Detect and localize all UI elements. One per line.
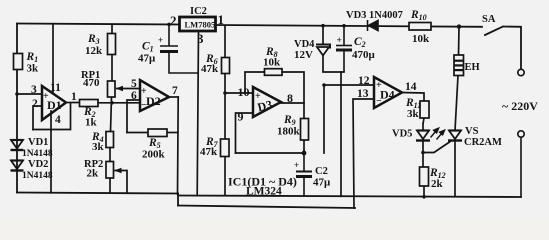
wire D1 pin2 <box>33 106 42 130</box>
switch SA <box>485 27 521 70</box>
node top right junction <box>457 24 461 28</box>
resistor R10 <box>409 23 431 31</box>
wire left rail <box>16 24 18 193</box>
wire D3 pin9 <box>236 113 254 153</box>
svg-text:C2: C2 <box>315 166 328 177</box>
zener VD4 <box>316 26 330 72</box>
wire D4 pin12 <box>324 84 374 86</box>
diode VD2 <box>11 161 24 171</box>
wire R5 loop left <box>127 132 148 134</box>
wire R8 left riser <box>245 72 265 93</box>
svg-text:470: 470 <box>83 77 100 89</box>
resistor R8 <box>265 69 283 76</box>
diode VD1 <box>11 140 24 150</box>
op-amp D2 <box>140 80 169 111</box>
resistor R3 <box>108 24 116 81</box>
LED arrows <box>431 128 445 139</box>
wire top rail left <box>17 24 179 25</box>
svg-text:C2: C2 <box>354 36 366 49</box>
svg-text:47μ: 47μ <box>313 177 331 189</box>
wire D1 output <box>66 102 80 104</box>
wire main ground rail <box>178 196 521 198</box>
wire D2 output down <box>177 97 180 194</box>
svg-text:2: 2 <box>170 13 177 28</box>
potentiometer RP2 <box>106 162 114 194</box>
resistor R11 <box>420 101 429 124</box>
diode VD3 <box>368 20 379 31</box>
svg-text:12: 12 <box>358 75 370 87</box>
node junctions <box>15 23 426 199</box>
svg-text:3k: 3k <box>27 63 40 75</box>
wire top rail mid <box>215 25 482 27</box>
wire D4 output <box>402 93 424 102</box>
regulator IC2 LM7805 <box>180 17 216 31</box>
wire D2 pin6 riser <box>127 100 140 133</box>
wire RP1 wiper to D2 pin5 <box>116 88 140 90</box>
svg-text:47k: 47k <box>200 146 218 158</box>
svg-text:4: 4 <box>55 114 61 126</box>
svg-text:D1: D1 <box>47 98 62 112</box>
label IC1 <box>228 175 297 198</box>
resistor R2 <box>80 100 99 107</box>
svg-text:+: + <box>158 35 163 45</box>
wire zener ground link <box>323 72 374 208</box>
svg-text:VD3 1N4007: VD3 1N4007 <box>346 10 403 21</box>
LED VD5 <box>416 123 430 167</box>
resistor R12 <box>420 167 429 197</box>
terminal lower <box>518 131 524 137</box>
svg-text:10k: 10k <box>263 57 281 69</box>
wire pin12 riser to C2 node <box>323 85 325 153</box>
wire bottom bus <box>178 206 355 209</box>
svg-text:1k: 1k <box>85 117 98 129</box>
svg-text:2k: 2k <box>431 178 444 190</box>
svg-text:1: 1 <box>218 12 225 27</box>
wire IC2 pin3 ground <box>197 31 198 196</box>
svg-text:VD5: VD5 <box>392 129 412 140</box>
wire R5 loop right <box>167 132 178 134</box>
wire bottom rail step <box>177 194 179 206</box>
svg-text:R10: R10 <box>410 9 427 22</box>
svg-text:~ 220V: ~ 220V <box>502 99 538 113</box>
svg-text:180k: 180k <box>277 126 301 138</box>
svg-text:10k: 10k <box>412 33 430 45</box>
svg-text:CR2AM: CR2AM <box>464 137 502 148</box>
capacitor C1 <box>160 24 199 73</box>
svg-text:D4: D4 <box>380 88 395 102</box>
capacitor C2 <box>296 153 312 196</box>
svg-text:12k: 12k <box>85 45 103 57</box>
wire R8 right to output node <box>282 72 304 119</box>
svg-text:LM324: LM324 <box>246 186 282 198</box>
resistor R9 <box>301 119 309 154</box>
resistor R7 <box>221 139 230 196</box>
wire D1 pin4 ground <box>50 111 52 193</box>
resistor R6 <box>222 25 230 139</box>
svg-text:1: 1 <box>71 91 77 103</box>
wire RP2 wiper <box>115 171 128 194</box>
capacitor C3 <box>336 26 352 72</box>
svg-text:10: 10 <box>238 85 250 99</box>
svg-text:14: 14 <box>405 81 417 93</box>
wire D1 feedback loop <box>33 103 71 130</box>
svg-text:VS: VS <box>465 126 479 137</box>
wire lower terminal to rail <box>520 137 522 197</box>
svg-text:+: + <box>294 160 299 170</box>
op-amp D4 <box>374 77 402 108</box>
svg-text:12V: 12V <box>294 49 313 61</box>
heater EH <box>454 27 464 76</box>
op-amp D1 <box>42 86 66 120</box>
resistor R5 <box>148 129 167 137</box>
svg-text:11: 11 <box>50 82 61 94</box>
resistor R1 <box>14 54 23 70</box>
wire R2 to D2 pin6 <box>98 102 140 104</box>
svg-text:3k: 3k <box>407 108 420 120</box>
svg-text:1N4148: 1N4148 <box>22 171 53 181</box>
svg-text:200k: 200k <box>142 149 166 161</box>
wire D4 pin13 <box>353 99 374 208</box>
wire bottom rail left <box>17 193 178 194</box>
resistor R4 <box>106 132 114 162</box>
wire ground riser x341 <box>340 72 342 196</box>
svg-text:VD2: VD2 <box>28 159 48 170</box>
svg-text:7: 7 <box>172 85 178 97</box>
wire D3 pin9 to C2 node <box>236 152 305 154</box>
wire D3 pin10 <box>225 92 253 94</box>
svg-text:9: 9 <box>238 110 244 124</box>
svg-text:1N4148: 1N4148 <box>22 149 53 159</box>
svg-text:47μ: 47μ <box>138 53 156 65</box>
svg-text:13: 13 <box>357 88 369 100</box>
svg-text:2k: 2k <box>87 168 100 180</box>
svg-text:47k: 47k <box>201 63 219 75</box>
wire VS gate <box>423 141 451 153</box>
svg-text:SA: SA <box>482 14 496 25</box>
svg-text:LM7805: LM7805 <box>185 20 216 30</box>
svg-text:IC2: IC2 <box>190 6 207 17</box>
wire D1 pin3 <box>17 93 42 95</box>
svg-text:+: + <box>337 36 342 46</box>
wire D3 output <box>281 102 304 104</box>
terminal upper <box>518 69 524 75</box>
svg-text:5: 5 <box>131 78 137 90</box>
thyristor VS <box>423 76 462 197</box>
svg-text:EH: EH <box>465 62 480 73</box>
wire D1 pin11 riser <box>52 24 54 93</box>
svg-text:VD1: VD1 <box>28 137 48 148</box>
wire D2 output <box>169 96 178 98</box>
node C2 junction <box>302 151 307 156</box>
svg-text:470μ: 470μ <box>352 49 376 61</box>
potentiometer RP1 <box>108 81 116 132</box>
svg-text:D2: D2 <box>146 94 161 108</box>
op-amp D3 <box>253 87 281 117</box>
svg-text:3k: 3k <box>92 141 105 153</box>
